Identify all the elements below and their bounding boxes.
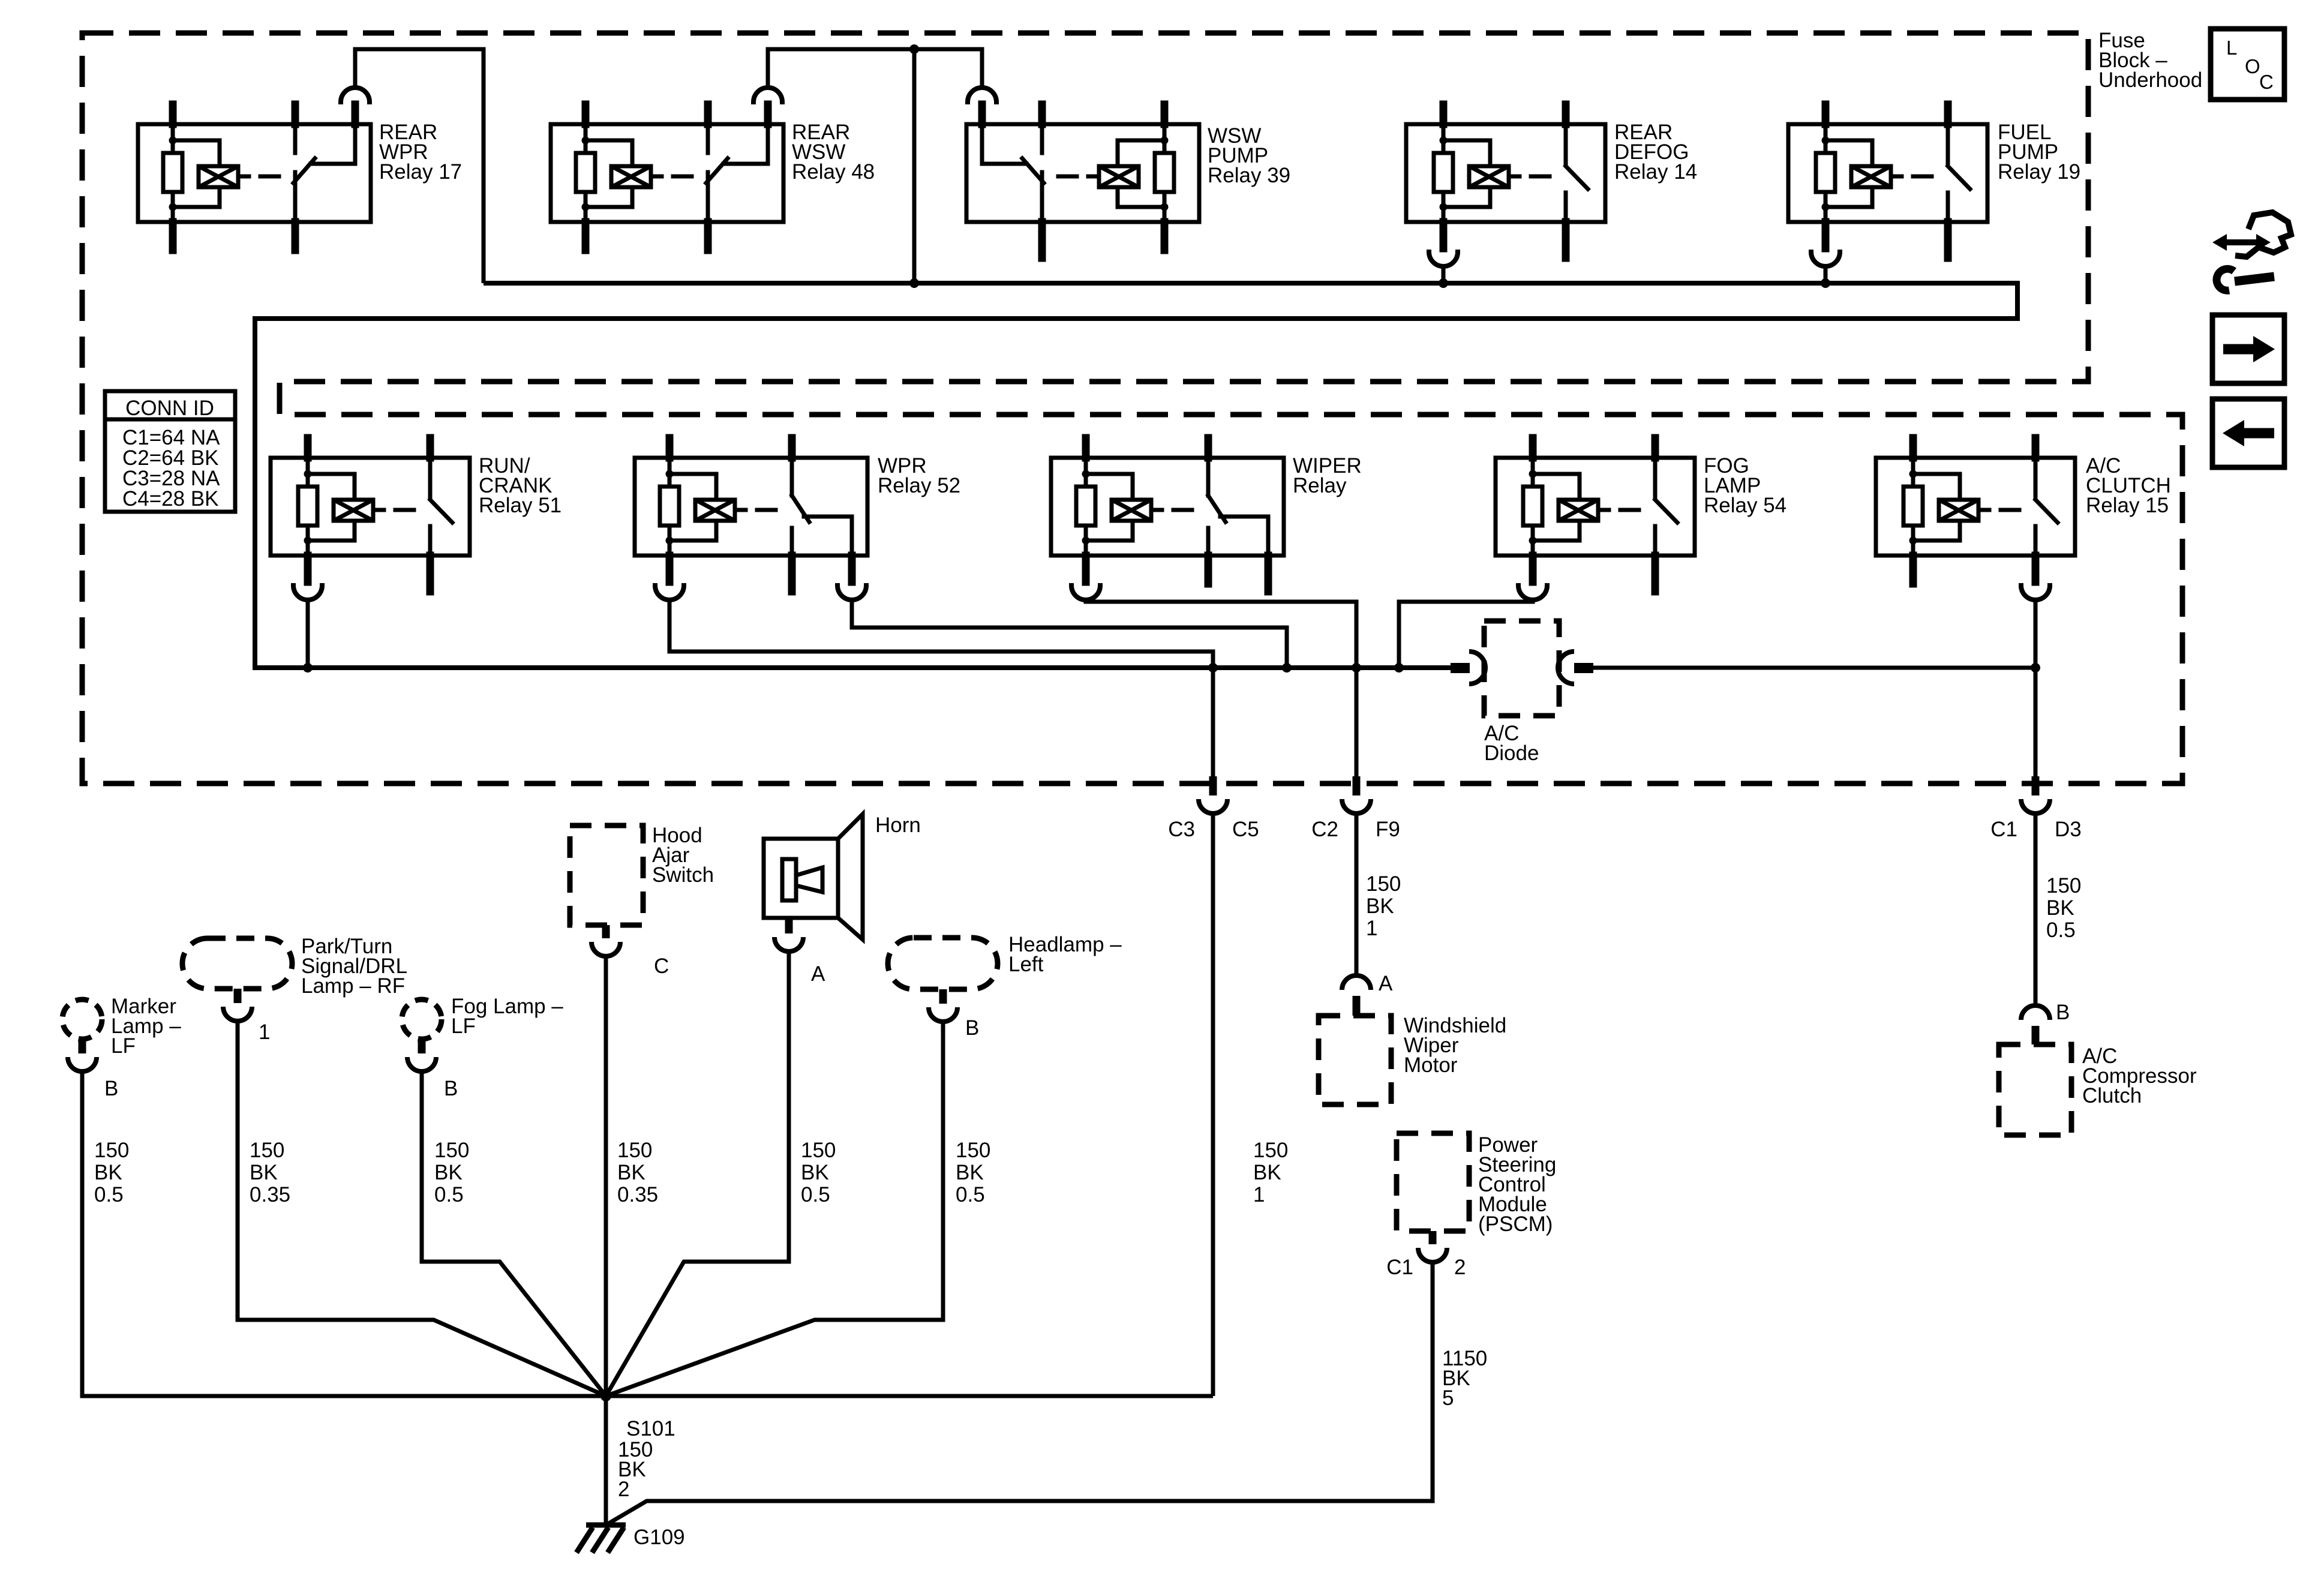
diagnostic wrench icon xyxy=(2212,212,2291,290)
svg-text:150: 150 xyxy=(1253,1139,1288,1162)
wire A/C diode right lead xyxy=(1593,666,2035,670)
svg-text:C: C xyxy=(2259,71,2274,93)
wire fog lamp to splice S101 xyxy=(422,1071,606,1396)
relay 19 FUEL PUMP xyxy=(1788,104,1987,266)
svg-text:150: 150 xyxy=(434,1139,469,1162)
relay 48 REAR WSW xyxy=(551,88,783,250)
wire relay 54 coil to bus xyxy=(1399,599,1533,668)
svg-text:150: 150 xyxy=(617,1139,652,1162)
svg-text:B: B xyxy=(2056,1001,2070,1024)
svg-text:D3: D3 xyxy=(2055,818,2082,841)
svg-text:B: B xyxy=(104,1077,118,1100)
ground G109 symbol xyxy=(577,1525,626,1553)
wire relay 14 coil to bus xyxy=(1442,266,1446,283)
svg-text:0.35: 0.35 xyxy=(250,1183,290,1206)
svg-text:BK: BK xyxy=(2046,896,2074,920)
svg-text:Relay 17: Relay 17 xyxy=(379,160,462,184)
wire WIPER relay coil to connector C2/F9 xyxy=(1086,599,1356,776)
wire relay 51 coil to bus xyxy=(306,599,310,668)
page locator icon (L O C) xyxy=(2211,29,2284,100)
svg-text:0.5: 0.5 xyxy=(2046,918,2076,942)
svg-text:Motor: Motor xyxy=(1404,1053,1458,1077)
svg-text:C1: C1 xyxy=(1386,1256,1413,1279)
svg-text:150: 150 xyxy=(801,1139,836,1162)
svg-text:C3: C3 xyxy=(1168,818,1195,841)
forward arrow icon xyxy=(2212,315,2284,383)
svg-text:2: 2 xyxy=(1454,1256,1466,1279)
svg-text:L: L xyxy=(2226,37,2237,59)
windshield wiper motor terminal A xyxy=(1342,972,1393,1016)
svg-text:Relay: Relay xyxy=(1293,474,1347,497)
svg-text:A: A xyxy=(1379,972,1393,995)
horn terminal A xyxy=(774,918,825,986)
svg-text:BK: BK xyxy=(1366,894,1394,918)
wire drop from top wire to bus xyxy=(912,49,917,283)
junction C2 wire/bus xyxy=(1352,663,1361,673)
wire relay 52 switch output to bus xyxy=(852,599,1287,668)
svg-text:2: 2 xyxy=(618,1478,629,1501)
CONN ID table xyxy=(105,391,235,512)
svg-text:BK: BK xyxy=(617,1161,645,1184)
connector C2/F9 xyxy=(1311,776,1400,841)
svg-text:150: 150 xyxy=(250,1139,284,1162)
svg-text:Clutch: Clutch xyxy=(2082,1084,2142,1107)
svg-text:BK: BK xyxy=(250,1161,278,1184)
svg-text:(PSCM): (PSCM) xyxy=(1478,1212,1553,1236)
wire C2/F9 to wiper motor terminal A xyxy=(1355,813,1359,975)
svg-text:0.5: 0.5 xyxy=(956,1183,985,1206)
svg-text:0.5: 0.5 xyxy=(801,1183,830,1206)
A/C diode right connector xyxy=(1558,652,1593,684)
connector C1/D3 xyxy=(1990,776,2082,841)
wire relay 19 coil to bus xyxy=(1824,266,1828,283)
svg-text:LF: LF xyxy=(451,1014,476,1038)
fog lamp - LF dashed circle xyxy=(402,999,442,1039)
svg-text:Lamp – RF: Lamp – RF xyxy=(301,974,405,998)
svg-text:G109: G109 xyxy=(633,1526,685,1549)
svg-text:Underhood: Underhood xyxy=(2098,68,2202,92)
svg-text:Relay 54: Relay 54 xyxy=(1704,494,1786,517)
wire C1/D3 to A/C compressor clutch terminal B xyxy=(2034,813,2038,1005)
svg-text:B: B xyxy=(444,1077,458,1100)
relay 14 REAR DEFOG xyxy=(1406,104,1605,266)
svg-text:C5: C5 xyxy=(1232,818,1259,841)
svg-text:1: 1 xyxy=(1366,917,1377,940)
wire C3/C5 to splice S101 xyxy=(1211,813,1215,1396)
svg-text:Horn: Horn xyxy=(875,813,921,837)
svg-text:BK: BK xyxy=(956,1161,984,1184)
junction relay 51/bus xyxy=(303,663,313,673)
svg-text:O: O xyxy=(2245,55,2260,77)
svg-text:150: 150 xyxy=(94,1139,129,1162)
connector C3/C5 xyxy=(1168,776,1259,841)
marker lamp - LF dashed circle xyxy=(62,999,102,1039)
svg-text:Relay 19: Relay 19 xyxy=(1998,160,2080,184)
horn xyxy=(764,814,863,939)
wire PSCM to ground G109 xyxy=(606,1262,1433,1525)
A/C diode dashed box xyxy=(1484,621,1559,716)
svg-text:150: 150 xyxy=(956,1139,990,1162)
park/turn lamp terminal 1 xyxy=(223,989,270,1044)
svg-text:5: 5 xyxy=(1442,1386,1454,1410)
wire headlamp to splice S101 xyxy=(606,1022,943,1396)
svg-text:C: C xyxy=(654,954,669,978)
hood ajar switch dashed box xyxy=(570,825,643,925)
svg-text:B: B xyxy=(965,1016,979,1040)
svg-text:Switch: Switch xyxy=(652,863,714,887)
relay 51 RUN/CRANK xyxy=(271,438,470,600)
headlamp - left dashed outline xyxy=(888,938,998,989)
junction C3 wire/bus xyxy=(1208,663,1218,673)
svg-text:Left: Left xyxy=(1008,953,1044,976)
bus wire (B+ distribution: upper run, u-turn, lower run, drop to row 2 run) xyxy=(255,283,2017,668)
wire relay 17 output up and over to bus xyxy=(355,49,484,283)
svg-text:C1: C1 xyxy=(1990,818,2017,841)
power steering control module dashed box xyxy=(1397,1133,1469,1231)
wire marker lamp to splice S101 xyxy=(82,1071,1213,1396)
svg-text:Relay 14: Relay 14 xyxy=(1614,160,1697,184)
junction relay 14/bus xyxy=(1439,278,1448,288)
svg-text:C4=28 BK: C4=28 BK xyxy=(122,487,219,511)
svg-text:150: 150 xyxy=(2046,874,2081,897)
relay 17 REAR WPR xyxy=(138,88,371,250)
A/C compressor clutch dashed box xyxy=(1999,1044,2071,1135)
svg-text:0.35: 0.35 xyxy=(617,1183,658,1206)
svg-text:Relay 15: Relay 15 xyxy=(2086,494,2169,517)
junction bus/top-wire drop xyxy=(909,278,919,288)
svg-text:Relay 52: Relay 52 xyxy=(878,474,960,497)
svg-text:CONN ID: CONN ID xyxy=(125,397,214,420)
junction relay 54/bus xyxy=(1394,663,1404,673)
svg-text:F9: F9 xyxy=(1376,818,1400,841)
relay 52 WPR xyxy=(635,438,867,600)
svg-text:BK: BK xyxy=(434,1161,463,1184)
windshield wiper motor dashed box xyxy=(1319,1016,1391,1104)
relay 15 A/C CLUTCH xyxy=(1876,438,2075,600)
splice S101 xyxy=(600,1391,611,1401)
svg-text:C2: C2 xyxy=(1311,818,1338,841)
fog lamp terminal B xyxy=(407,1039,458,1100)
svg-text:0.5: 0.5 xyxy=(434,1183,464,1206)
wire splice S101 to ground xyxy=(604,1396,608,1525)
back arrow icon xyxy=(2212,399,2284,467)
hood ajar switch terminal C xyxy=(591,925,669,978)
svg-text:Diode: Diode xyxy=(1484,742,1539,765)
svg-text:LF: LF xyxy=(111,1034,136,1058)
PSCM connector C1 pin 2 xyxy=(1386,1231,1466,1279)
junction diode lead / relay 15 wire xyxy=(2031,663,2040,673)
relay 39 WSW PUMP (mirrored) xyxy=(966,88,1199,258)
svg-text:BK: BK xyxy=(94,1161,122,1184)
wire horn to splice S101 xyxy=(606,951,789,1396)
svg-text:Relay 51: Relay 51 xyxy=(479,494,562,517)
svg-text:Relay 48: Relay 48 xyxy=(792,160,875,184)
junction relay 52 output/bus xyxy=(1282,663,1292,673)
wire relay 52 coil to connector C3/C5 xyxy=(669,599,1213,776)
svg-text:1: 1 xyxy=(259,1020,270,1044)
junction relay 19/bus xyxy=(1821,278,1830,288)
svg-text:A: A xyxy=(811,962,825,986)
svg-text:150: 150 xyxy=(1366,872,1401,896)
headlamp terminal B xyxy=(929,989,979,1040)
svg-text:BK: BK xyxy=(1253,1161,1281,1184)
wire relay 15 switch to connector C1/D3 xyxy=(2034,599,2038,776)
junction on top wire xyxy=(909,44,919,54)
svg-text:1: 1 xyxy=(1253,1183,1265,1206)
fuse block - underhood dashed outline xyxy=(82,33,2182,784)
svg-text:S101: S101 xyxy=(626,1417,675,1440)
wire park/turn lamp to splice S101 xyxy=(238,1021,606,1396)
svg-text:Relay 39: Relay 39 xyxy=(1208,164,1290,187)
A/C diode left connector (bus side) xyxy=(1451,652,1485,684)
svg-text:0.5: 0.5 xyxy=(94,1183,124,1206)
WIPER relay xyxy=(1051,438,1284,600)
A/C compressor clutch terminal B xyxy=(2021,1001,2070,1044)
park/turn signal/DRL lamp - RF dashed outline xyxy=(182,938,292,989)
relay 54 FOG LAMP xyxy=(1496,438,1695,600)
marker lamp terminal B xyxy=(68,1039,118,1100)
wire hood ajar switch to splice S101 xyxy=(604,956,608,1396)
svg-text:BK: BK xyxy=(801,1161,829,1184)
wire relay 48 output to relay 39 input xyxy=(768,49,982,88)
